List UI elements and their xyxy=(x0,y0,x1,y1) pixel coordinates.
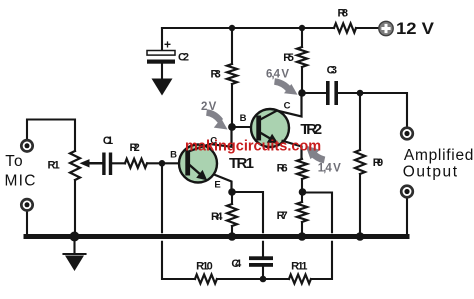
svg-text:R5: R5 xyxy=(283,52,294,64)
svg-text:R9: R9 xyxy=(373,157,383,169)
svg-text:12 V: 12 V xyxy=(396,19,435,38)
svg-text:TR2: TR2 xyxy=(300,121,322,138)
svg-text:TR1: TR1 xyxy=(229,155,254,172)
svg-text:C1: C1 xyxy=(103,135,113,147)
svg-text:C3: C3 xyxy=(327,65,337,77)
svg-text:6,4 V: 6,4 V xyxy=(266,69,289,81)
svg-text:R3: R3 xyxy=(211,69,221,81)
svg-text:R1: R1 xyxy=(48,160,60,172)
svg-text:R11: R11 xyxy=(291,261,307,273)
svg-text:2 V: 2 V xyxy=(201,101,217,113)
svg-text:Output: Output xyxy=(403,163,458,180)
svg-text:B: B xyxy=(170,150,177,161)
svg-text:To: To xyxy=(5,153,22,170)
svg-text:C2: C2 xyxy=(178,52,189,64)
svg-text:R2: R2 xyxy=(130,142,140,154)
svg-text:Amplified: Amplified xyxy=(404,147,474,164)
svg-text:C: C xyxy=(284,100,291,111)
svg-text:R4: R4 xyxy=(211,211,223,223)
svg-text:R10: R10 xyxy=(196,261,213,273)
svg-text:B: B xyxy=(240,113,247,124)
svg-text:C4: C4 xyxy=(231,258,242,270)
svg-text:R7: R7 xyxy=(277,210,288,222)
svg-text:1,4 V: 1,4 V xyxy=(318,163,341,175)
svg-text:makingcircuits.com: makingcircuits.com xyxy=(185,139,321,155)
svg-text:MIC: MIC xyxy=(5,172,36,189)
svg-text:E: E xyxy=(214,180,220,191)
svg-text:R6: R6 xyxy=(277,162,288,174)
svg-text:+: + xyxy=(164,38,171,52)
svg-text:R8: R8 xyxy=(338,8,349,20)
